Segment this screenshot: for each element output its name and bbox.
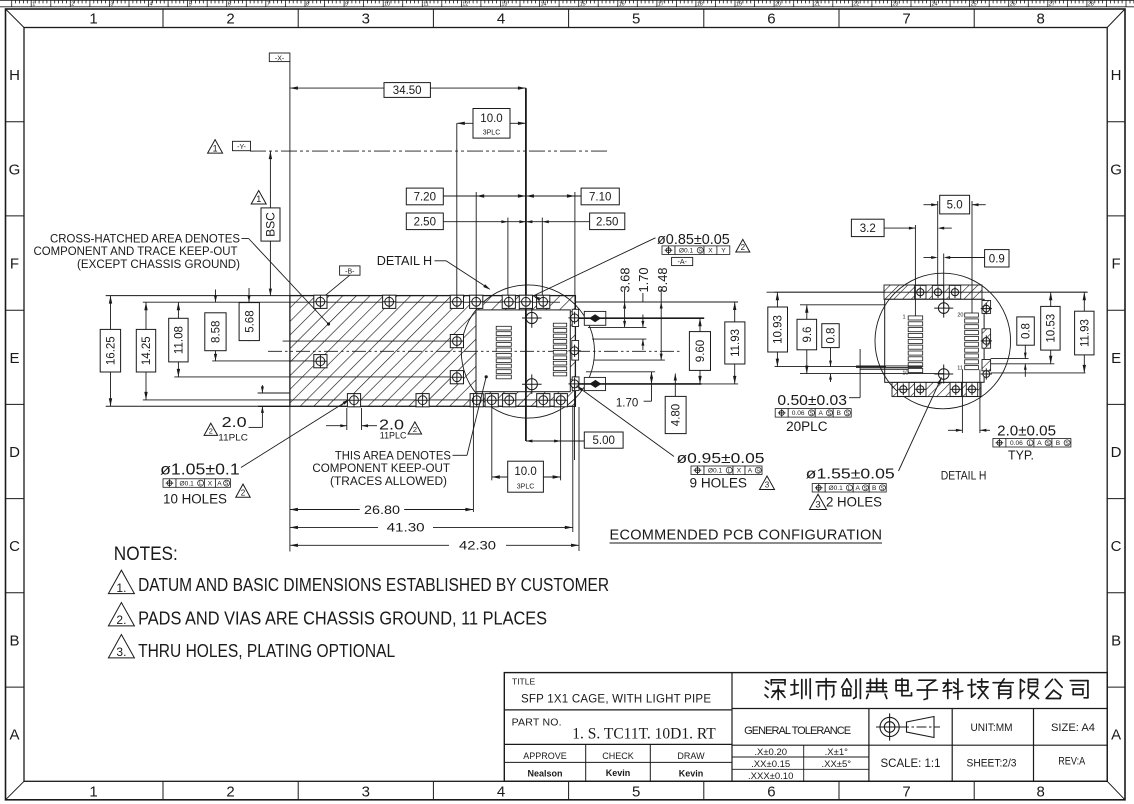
detail right extension lines: [991, 291, 1088, 293]
svg-text:3.2: 3.2: [860, 223, 876, 235]
svg-text:1: 1: [32, 1, 35, 7]
svg-text:1. S. TC11T. 10D1. RT: 1. S. TC11T. 10D1. RT: [572, 726, 716, 743]
svg-text:3.68: 3.68: [617, 268, 632, 293]
svg-text:25: 25: [971, 1, 977, 7]
svg-text:COMPONENT AND TRACE KEEP-OU: COMPONENT AND TRACE KEEP-OUT: [34, 246, 238, 258]
svg-text:34.50: 34.50: [393, 85, 422, 97]
svg-text:3: 3: [765, 481, 770, 490]
svg-text:1.70: 1.70: [636, 268, 651, 293]
svg-text:8.58: 8.58: [210, 321, 222, 343]
detail dimension 10.53: [1050, 292, 1052, 364]
svg-text:5: 5: [632, 11, 640, 28]
detail dimension 2.0 TYP: [961, 370, 963, 434]
svg-text:X: X: [208, 480, 213, 487]
svg-text:1: 1: [213, 143, 218, 153]
svg-text:27: 27: [1049, 1, 1055, 7]
svg-text:6: 6: [767, 784, 775, 801]
svg-text:28: 28: [1088, 1, 1094, 7]
svg-text:6: 6: [767, 11, 775, 28]
svg-text:7: 7: [902, 11, 910, 28]
svg-text:APPROVE: APPROVE: [523, 751, 567, 761]
svg-text:A: A: [217, 480, 222, 487]
dimension 1.70 upper: [642, 315, 644, 328]
svg-text:S: S: [864, 486, 868, 492]
svg-text:C: C: [1111, 538, 1122, 555]
svg-text:S: S: [698, 248, 702, 254]
svg-text:11PLC: 11PLC: [218, 432, 248, 443]
detail dimension 11.93: [1083, 292, 1085, 373]
svg-text:2.50: 2.50: [596, 216, 618, 228]
dimension 9.60: [699, 318, 701, 384]
svg-text:.XXX±0.10: .XXX±0.10: [748, 771, 793, 782]
svg-text:3: 3: [815, 500, 820, 511]
BSC basic dimension from -Y- to cage top: [269, 151, 271, 296]
svg-text:4: 4: [497, 11, 505, 28]
svg-text:TYP.: TYP.: [1008, 447, 1034, 462]
svg-text:4: 4: [497, 784, 505, 801]
svg-text:10.53: 10.53: [1045, 314, 1057, 343]
dimension 10.0 3PLC bottom: [492, 476, 508, 478]
svg-text:DETAIL H: DETAIL H: [941, 471, 987, 483]
svg-text:4.80: 4.80: [671, 404, 683, 426]
svg-text:1: 1: [902, 315, 905, 321]
svg-text:8: 8: [1037, 11, 1045, 28]
svg-text:S: S: [846, 411, 850, 417]
dimension 42.30: [578, 407, 580, 551]
svg-text:F: F: [1112, 256, 1121, 273]
dimension 34.50: [290, 87, 384, 89]
svg-text:7: 7: [902, 784, 910, 801]
detail right edge pads (hatched): [982, 301, 991, 314]
detail right edge pad symbols: [981, 303, 992, 314]
svg-text:17: 17: [658, 1, 664, 7]
svg-text:E: E: [1111, 350, 1121, 367]
note 3: [108, 635, 134, 660]
svg-text:23: 23: [892, 1, 898, 7]
detail dimension 0.50 20PLC: [859, 349, 861, 398]
svg-text:9: 9: [345, 1, 348, 7]
dimension 1.70 lower with hook: [651, 372, 653, 401]
svg-text:.X±1°: .X±1°: [825, 747, 848, 758]
SMT pad column left (main): [496, 326, 511, 379]
left dimension 5.68: [248, 288, 250, 302]
svg-text:Kevin: Kevin: [679, 769, 704, 779]
svg-text:10.0: 10.0: [514, 466, 536, 478]
note 2: [108, 603, 134, 628]
svg-text:ø0.95±0.05: ø0.95±0.05: [677, 450, 765, 467]
svg-text:15: 15: [580, 1, 586, 7]
svg-text:E: E: [9, 350, 19, 367]
right side extension lines: [576, 301, 738, 303]
detail top band pads: [915, 285, 926, 299]
svg-text:REV:A: REV:A: [1058, 755, 1086, 767]
svg-text:41.30: 41.30: [387, 520, 425, 534]
detail SMT column right with pin labels: [965, 313, 979, 370]
svg-text:Y: Y: [721, 247, 726, 254]
svg-text:14: 14: [541, 1, 547, 7]
svg-text:8: 8: [1037, 784, 1045, 801]
svg-text:5: 5: [189, 1, 192, 7]
svg-text:2: 2: [241, 488, 246, 497]
interior pads: [314, 355, 327, 368]
svg-text:PADS AND VIAS ARE CHASSIS: PADS AND VIAS ARE CHASSIS GROUND, 11 PLA…: [138, 608, 547, 628]
detail dimension 10.93: [776, 292, 778, 366]
svg-text:11PLC: 11PLC: [380, 431, 407, 442]
svg-text:2: 2: [413, 425, 417, 434]
dimension 10.0 3PLC top: [457, 122, 473, 124]
svg-text:B: B: [1111, 633, 1121, 650]
pads on bottom edge: [347, 394, 360, 407]
svg-text:-B-: -B-: [345, 269, 355, 276]
detail dimension 9.6: [806, 305, 808, 374]
SMT pad column right (main): [553, 323, 566, 376]
svg-text:0.06: 0.06: [1010, 440, 1023, 447]
svg-text:13: 13: [501, 1, 507, 7]
svg-text:-Y-: -Y-: [237, 144, 246, 151]
svg-text:20: 20: [957, 313, 963, 319]
svg-text:-X-: -X-: [275, 55, 285, 62]
svg-text:5.0: 5.0: [947, 200, 963, 212]
svg-text:(TRACES ALLOWED): (TRACES ALLOWED): [330, 476, 447, 488]
svg-text:CROSS-HATCHED AREA DENOTES: CROSS-HATCHED AREA DENOTES: [50, 234, 240, 246]
svg-text:21: 21: [814, 1, 820, 7]
left dimension 14.25: [145, 302, 147, 400]
svg-text:B: B: [1056, 440, 1061, 447]
svg-text:D: D: [9, 444, 20, 461]
svg-text:2.0±0.05: 2.0±0.05: [997, 423, 1056, 439]
svg-text:3PLC: 3PLC: [517, 484, 535, 491]
svg-text:5.00: 5.00: [593, 435, 615, 447]
svg-text:4: 4: [150, 1, 153, 7]
svg-text:1.: 1.: [116, 581, 126, 595]
left dimension 16.25: [110, 296, 112, 407]
svg-text:S: S: [756, 468, 760, 474]
dimension 7.10: [526, 195, 581, 197]
detail left extension lines: [775, 291, 885, 293]
svg-text:24: 24: [932, 1, 938, 7]
svg-text:S: S: [1065, 441, 1069, 447]
svg-text:.XX±5°: .XX±5°: [821, 759, 851, 770]
svg-text:Ø0.1: Ø0.1: [708, 468, 723, 475]
svg-text:NOTES:: NOTES:: [114, 544, 178, 565]
svg-text:3: 3: [362, 784, 370, 801]
svg-text:X: X: [708, 247, 713, 254]
svg-text:3PLC: 3PLC: [483, 130, 501, 137]
svg-text:2 HOLES: 2 HOLES: [826, 494, 882, 510]
svg-text:1: 1: [89, 784, 97, 801]
detail keep-out rectangle: [885, 299, 984, 382]
svg-text:C: C: [9, 538, 20, 555]
left dimension 11.08: [177, 302, 179, 377]
svg-text:B: B: [9, 633, 19, 650]
svg-text:ø1.05±0.1: ø1.05±0.1: [160, 461, 240, 478]
pads on top edge: [314, 295, 327, 308]
svg-text:3.: 3.: [116, 645, 126, 659]
svg-text:G: G: [1110, 161, 1122, 178]
right edge pads with diamond tails: [572, 309, 578, 326]
detail thru holes: [934, 299, 953, 318]
detail dimension 0.8 left: [830, 348, 832, 367]
svg-text:H: H: [9, 67, 20, 84]
svg-text:1.70: 1.70: [616, 398, 638, 410]
svg-text:18: 18: [697, 1, 703, 7]
svg-text:X: X: [737, 468, 742, 475]
svg-text:G: G: [9, 161, 21, 178]
svg-text:7.10: 7.10: [589, 191, 611, 203]
svg-text:S: S: [828, 411, 832, 417]
svg-text:S: S: [1046, 441, 1050, 447]
dimension 7.20: [443, 195, 526, 197]
svg-text:BSC: BSC: [263, 212, 277, 237]
svg-text:L: L: [848, 486, 851, 492]
svg-text:2: 2: [209, 427, 213, 436]
detail dimension 0.8 right: [1024, 345, 1026, 358]
svg-text:Ø0.1: Ø0.1: [679, 247, 694, 254]
dimension 2.50 right: [526, 221, 590, 223]
svg-text:2.: 2.: [116, 613, 126, 627]
svg-text:CHECK: CHECK: [602, 751, 634, 761]
svg-text:0.06: 0.06: [792, 410, 805, 417]
cage centerline: [268, 350, 680, 352]
svg-text:S: S: [810, 411, 814, 417]
dimension 11.93 right of main: [734, 302, 736, 384]
svg-text:11.93: 11.93: [1079, 319, 1091, 347]
svg-text:.X±0.20: .X±0.20: [754, 747, 787, 758]
svg-text:D: D: [1111, 444, 1122, 461]
svg-text:3: 3: [110, 1, 113, 7]
svg-text:DATUM AND BASIC DIMENSIONS: DATUM AND BASIC DIMENSIONS ESTABLISHED B…: [138, 575, 609, 595]
note 1: [108, 570, 134, 595]
svg-text:10.93: 10.93: [773, 315, 785, 344]
svg-text:SIZE: A4: SIZE: A4: [1051, 722, 1095, 734]
dimension 26.80: [289, 406, 291, 551]
svg-text:12: 12: [462, 1, 468, 7]
svg-text:20: 20: [775, 1, 781, 7]
svg-text:5: 5: [632, 784, 640, 801]
detail bottom band pads: [898, 382, 909, 396]
svg-text:6: 6: [228, 1, 231, 7]
datum -X- label: [269, 53, 290, 62]
svg-text:L: L: [199, 481, 202, 487]
svg-text:10 HOLES: 10 HOLES: [163, 492, 227, 507]
left edge extension up to -X-: [289, 62, 291, 296]
svg-text:9.6: 9.6: [802, 327, 814, 343]
svg-text:SHEET:2/3: SHEET:2/3: [967, 757, 1017, 769]
svg-text:H: H: [1111, 67, 1122, 84]
dimension 2.50 left: [443, 221, 508, 223]
datum flag triangle near -Y-: [208, 140, 223, 154]
svg-text:S: S: [881, 486, 885, 492]
svg-text:11.08: 11.08: [173, 326, 185, 354]
svg-text:20PLC: 20PLC: [786, 419, 828, 434]
left dimension 8.58: [215, 290, 217, 303]
svg-text:.XX±0.15: .XX±0.15: [751, 759, 790, 770]
detail SMT column left with pin labels: [908, 316, 923, 373]
svg-text:DETAIL H: DETAIL H: [377, 253, 433, 268]
dimension 2.0 11PLC left (pad height): [261, 385, 263, 393]
detail view top hatch band: [884, 285, 982, 299]
svg-text:ECOMMENDED PCB CONFIGURATION: ECOMMENDED PCB CONFIGURATION: [610, 527, 883, 543]
svg-text:11: 11: [423, 1, 429, 7]
company name (CJK strokes): [765, 679, 1088, 700]
dimension 4.80: [674, 374, 676, 397]
svg-text:ø0.85±0.05: ø0.85±0.05: [657, 232, 730, 248]
svg-text:SCALE: 1:1: SCALE: 1:1: [881, 758, 941, 770]
svg-text:A: A: [855, 485, 860, 492]
svg-text:A: A: [748, 468, 753, 475]
svg-text:26.80: 26.80: [364, 503, 400, 517]
svg-text:42.30: 42.30: [459, 538, 496, 552]
dimension 41.30: [572, 407, 574, 532]
detail circle outline: [875, 273, 1011, 409]
svg-text:10.0: 10.0: [480, 113, 502, 125]
svg-text:DRAW: DRAW: [677, 751, 705, 761]
svg-text:THIS AREA DENOTES: THIS AREA DENOTES: [335, 451, 451, 463]
detail dimension 5.0: [924, 204, 938, 206]
svg-text:A: A: [1111, 727, 1121, 744]
svg-text:3: 3: [362, 11, 370, 28]
svg-text:2: 2: [226, 784, 234, 801]
svg-text:Kevin: Kevin: [606, 768, 631, 778]
svg-text:9.60: 9.60: [695, 340, 707, 362]
datum -Y- centerline: [250, 150, 610, 152]
svg-text:0.8: 0.8: [826, 328, 838, 344]
svg-text:2: 2: [226, 11, 234, 28]
svg-text:Nealson: Nealson: [527, 769, 562, 779]
svg-text:10: 10: [384, 1, 390, 7]
svg-text:COMPONENT KEEP-OUT: COMPONENT KEEP-OUT: [312, 463, 450, 475]
svg-text:(EXCEPT CHASSIS GROUND): (EXCEPT CHASSIS GROUND): [77, 259, 240, 271]
component keep-out rectangle (traces allowed): [476, 310, 570, 392]
svg-text:S: S: [225, 481, 229, 487]
svg-text:1: 1: [89, 11, 97, 28]
svg-text:16.25: 16.25: [105, 336, 117, 365]
svg-text:1: 1: [256, 194, 261, 204]
detail dimension 3.2: [851, 219, 884, 236]
projection symbol: [876, 713, 940, 740]
vertical extension lines above cage: [456, 123, 458, 301]
svg-text:B: B: [872, 485, 877, 492]
svg-text:SFP 1X1 CAGE, WITH LIGHT: SFP 1X1 CAGE, WITH LIGHT PIPE: [521, 694, 711, 706]
svg-text:L: L: [728, 468, 731, 474]
svg-text:11.93: 11.93: [730, 329, 742, 357]
detail view bottom hatch band: [892, 382, 981, 396]
top ruler: [0, 0, 1134, 7]
svg-text:PART NO.: PART NO.: [512, 717, 562, 729]
detail circle on main view: [461, 285, 594, 418]
svg-text:UNIT:MM: UNIT:MM: [971, 722, 1013, 734]
thru holes (main): [522, 308, 542, 328]
detail dimension 0.9: [985, 250, 1009, 267]
svg-text:L: L: [1029, 441, 1032, 447]
svg-text:THRU HOLES, PLATING OPTIONA: THRU HOLES, PLATING OPTIONAL: [138, 641, 395, 661]
svg-text:0.9: 0.9: [989, 253, 1005, 265]
svg-text:2.0: 2.0: [222, 414, 247, 431]
svg-text:2.50: 2.50: [414, 216, 436, 228]
svg-text:-A-: -A-: [678, 259, 688, 266]
dimension 3.68: [624, 302, 626, 327]
svg-text:7: 7: [267, 1, 270, 7]
svg-text:A: A: [1037, 440, 1042, 447]
svg-text:7.20: 7.20: [414, 191, 436, 203]
svg-text:5.68: 5.68: [244, 310, 256, 332]
cage footprint hatched keep-out area: [290, 296, 576, 407]
detail top band pad centre line: [767, 291, 1088, 293]
svg-text:0.8: 0.8: [1021, 323, 1033, 339]
svg-text:TITLE: TITLE: [512, 677, 535, 687]
svg-text:2: 2: [71, 1, 74, 7]
svg-text:0.50±0.03: 0.50±0.03: [777, 392, 847, 409]
svg-text:19: 19: [736, 1, 742, 7]
svg-text:8.48: 8.48: [655, 268, 670, 293]
svg-text:Ø0.1: Ø0.1: [180, 480, 195, 487]
svg-text:14.25: 14.25: [141, 336, 153, 365]
dimension 5.00: [526, 440, 584, 442]
svg-text:Ø0.1: Ø0.1: [829, 485, 844, 492]
dimension 8.48: [660, 302, 662, 360]
svg-text:26: 26: [1010, 1, 1016, 7]
datum -B- label with leader: [340, 266, 360, 275]
svg-text:16: 16: [619, 1, 625, 7]
svg-text:B: B: [836, 410, 841, 417]
svg-text:22: 22: [853, 1, 859, 7]
svg-text:9 HOLES: 9 HOLES: [690, 476, 748, 491]
svg-text:F: F: [10, 256, 19, 273]
horizontal extension lines left side: [106, 295, 290, 297]
svg-text:A: A: [9, 727, 19, 744]
svg-text:2: 2: [741, 243, 746, 252]
svg-text:ø1.55±0.05: ø1.55±0.05: [806, 466, 895, 483]
title block frame: [504, 673, 1107, 782]
dimension 2.0 11PLC middle (pad width): [346, 408, 348, 430]
svg-text:GENERAL TOLERANCE: GENERAL TOLERANCE: [744, 725, 851, 737]
svg-text:8: 8: [306, 1, 309, 7]
svg-text:A: A: [818, 410, 823, 417]
